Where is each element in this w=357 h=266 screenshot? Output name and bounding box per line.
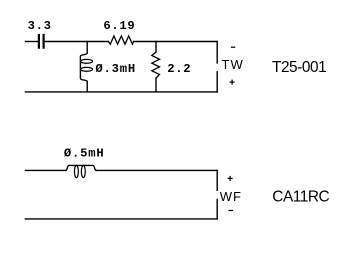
resistor R2 zigzag (152, 52, 160, 78)
WF minus sign (228, 210, 233, 212)
wire: woofer right vertical lower stub (216, 200, 218, 219)
inductor L1 0.3mH shunt: top lead (86, 42, 88, 54)
inductor L1 bottom lead (86, 82, 88, 92)
svg-text:CA11RC: CA11RC (272, 189, 329, 206)
wire: tweeter right vertical upper stub (216, 42, 218, 64)
svg-text:6.19: 6.19 (103, 19, 135, 33)
wire: woofer input lead to inductor (25, 169, 65, 171)
TW plus sign (230, 80, 235, 85)
svg-text:Ø.3mH: Ø.3mH (95, 62, 136, 76)
capacitor C1 3.3uF plates (39, 35, 44, 48)
wire: woofer right vertical upper stub (216, 170, 218, 190)
wire: woofer bottom return (25, 218, 217, 220)
svg-text:Ø.5mH: Ø.5mH (64, 146, 105, 160)
inductor L2 0.5mH coil body (66, 165, 97, 170)
wire: tweeter input top lead to capacitor (25, 41, 38, 43)
svg-text:2.2: 2.2 (167, 62, 191, 76)
resistor R2 2.2 shunt: top lead (155, 42, 157, 53)
resistor R1 6.19 zigzag (108, 36, 133, 44)
inductor L2 loop 1 (74, 165, 78, 177)
inductor L2 loop 2 (81, 165, 85, 177)
inductor L1 loop 2 (80, 67, 92, 71)
resistor R2 bottom lead (155, 78, 157, 92)
svg-text:WF: WF (220, 189, 242, 204)
inductor L1 loop 1 (80, 59, 92, 63)
WF plus sign (228, 176, 233, 181)
svg-text:T25-001: T25-001 (272, 59, 326, 76)
wire: series resistor to right edge (134, 41, 218, 43)
svg-text:3.3: 3.3 (28, 19, 52, 33)
inductor L1 coil body (80, 53, 87, 82)
TW minus sign (231, 46, 235, 48)
wire: tweeter right vertical lower stub (216, 72, 218, 92)
svg-text:TW: TW (222, 57, 244, 72)
wire: capacitor to series resistor (45, 41, 109, 43)
wire: inductor to right edge (96, 169, 217, 171)
wire: tweeter bottom return (25, 91, 217, 93)
